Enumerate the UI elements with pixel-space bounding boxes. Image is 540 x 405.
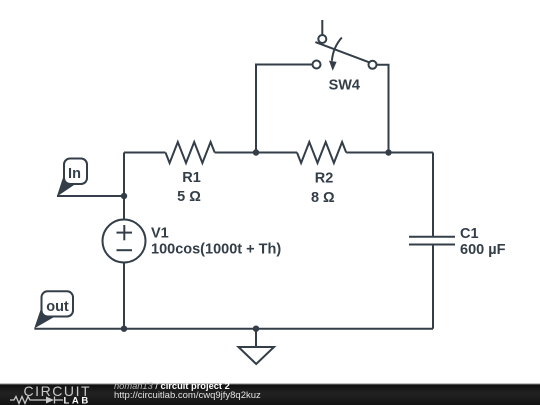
svg-text:V1: V1 (151, 226, 169, 242)
footer line 1 (114, 381, 230, 391)
svg-text:LAB: LAB (64, 396, 91, 405)
node In junction dot (121, 193, 127, 199)
flag out text (46, 299, 69, 315)
svg-text:100cos(1000t + Th): 100cos(1000t + Th) (151, 242, 281, 258)
wire V1 to bottom (123, 263, 125, 329)
flag In text (68, 166, 81, 182)
flag In (57, 159, 87, 197)
voltage source V1 (103, 220, 146, 263)
wire In flag (57, 195, 124, 197)
wire R2 to node B (346, 152, 388, 154)
node A junction dot (253, 149, 259, 155)
wire left branch down to V1 (123, 153, 125, 220)
value V1 (151, 242, 281, 258)
label R1 (182, 170, 201, 186)
wire node B to right corner (389, 152, 434, 154)
svg-text:600 µF: 600 µF (460, 242, 506, 258)
svg-text:5 Ω: 5 Ω (177, 189, 201, 205)
svg-text:R2: R2 (315, 171, 334, 187)
node B junction dot (385, 149, 391, 155)
label C1 (460, 226, 479, 242)
ground (239, 329, 275, 364)
CircuitLab logo zigzag and diode (10, 397, 63, 404)
value R1 5 Ohm (177, 189, 201, 205)
svg-text:C1: C1 (460, 226, 479, 242)
resistor R1 (166, 142, 215, 163)
wire bottom main (34, 328, 433, 330)
node ground junction dot (253, 326, 259, 332)
svg-text:R1: R1 (182, 170, 201, 186)
wire SW4 left branch (256, 65, 313, 153)
footer bar (0, 383, 540, 405)
wire SW4 right branch (377, 65, 389, 153)
value R2 8 Ohm (311, 190, 335, 206)
wire R1 to node A (215, 152, 256, 154)
switch SW4 (313, 20, 377, 71)
label R2 (315, 171, 334, 187)
footer line 2 (114, 390, 261, 401)
flag out (34, 291, 73, 328)
resistor R2 (297, 142, 346, 163)
capacitor C1 (409, 153, 455, 329)
CircuitLab logo text CIRCUIT (24, 383, 92, 399)
value C1 (460, 242, 506, 258)
svg-text:8 Ω: 8 Ω (311, 190, 335, 206)
label SW4 (329, 77, 360, 93)
label V1 (151, 226, 169, 242)
wire top main (124, 152, 166, 154)
svg-text:out: out (46, 299, 69, 315)
svg-text:SW4: SW4 (329, 77, 360, 93)
node out junction dot (121, 326, 127, 332)
svg-text:In: In (68, 166, 81, 182)
CircuitLab logo text LAB (64, 396, 91, 405)
wire node A to R2 (256, 152, 297, 154)
